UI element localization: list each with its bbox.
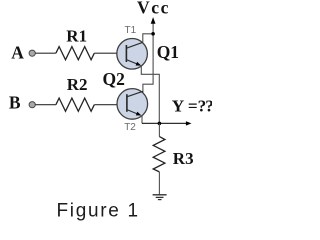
svg-text:Y =?: Y =?: [172, 96, 206, 115]
svg-text:Figure 1: Figure 1: [57, 200, 140, 221]
svg-text:Vcc: Vcc: [137, 0, 170, 17]
svg-text:R2: R2: [67, 75, 88, 94]
svg-text:R3: R3: [173, 149, 194, 168]
svg-text:B: B: [9, 92, 21, 112]
svg-text:Q2: Q2: [103, 69, 125, 89]
svg-text:T2: T2: [124, 122, 136, 133]
svg-text:A: A: [11, 43, 24, 63]
svg-text:Q1: Q1: [157, 42, 179, 62]
svg-text:T1: T1: [125, 25, 137, 36]
svg-text:?: ?: [205, 96, 212, 115]
svg-text:R1: R1: [66, 27, 87, 46]
